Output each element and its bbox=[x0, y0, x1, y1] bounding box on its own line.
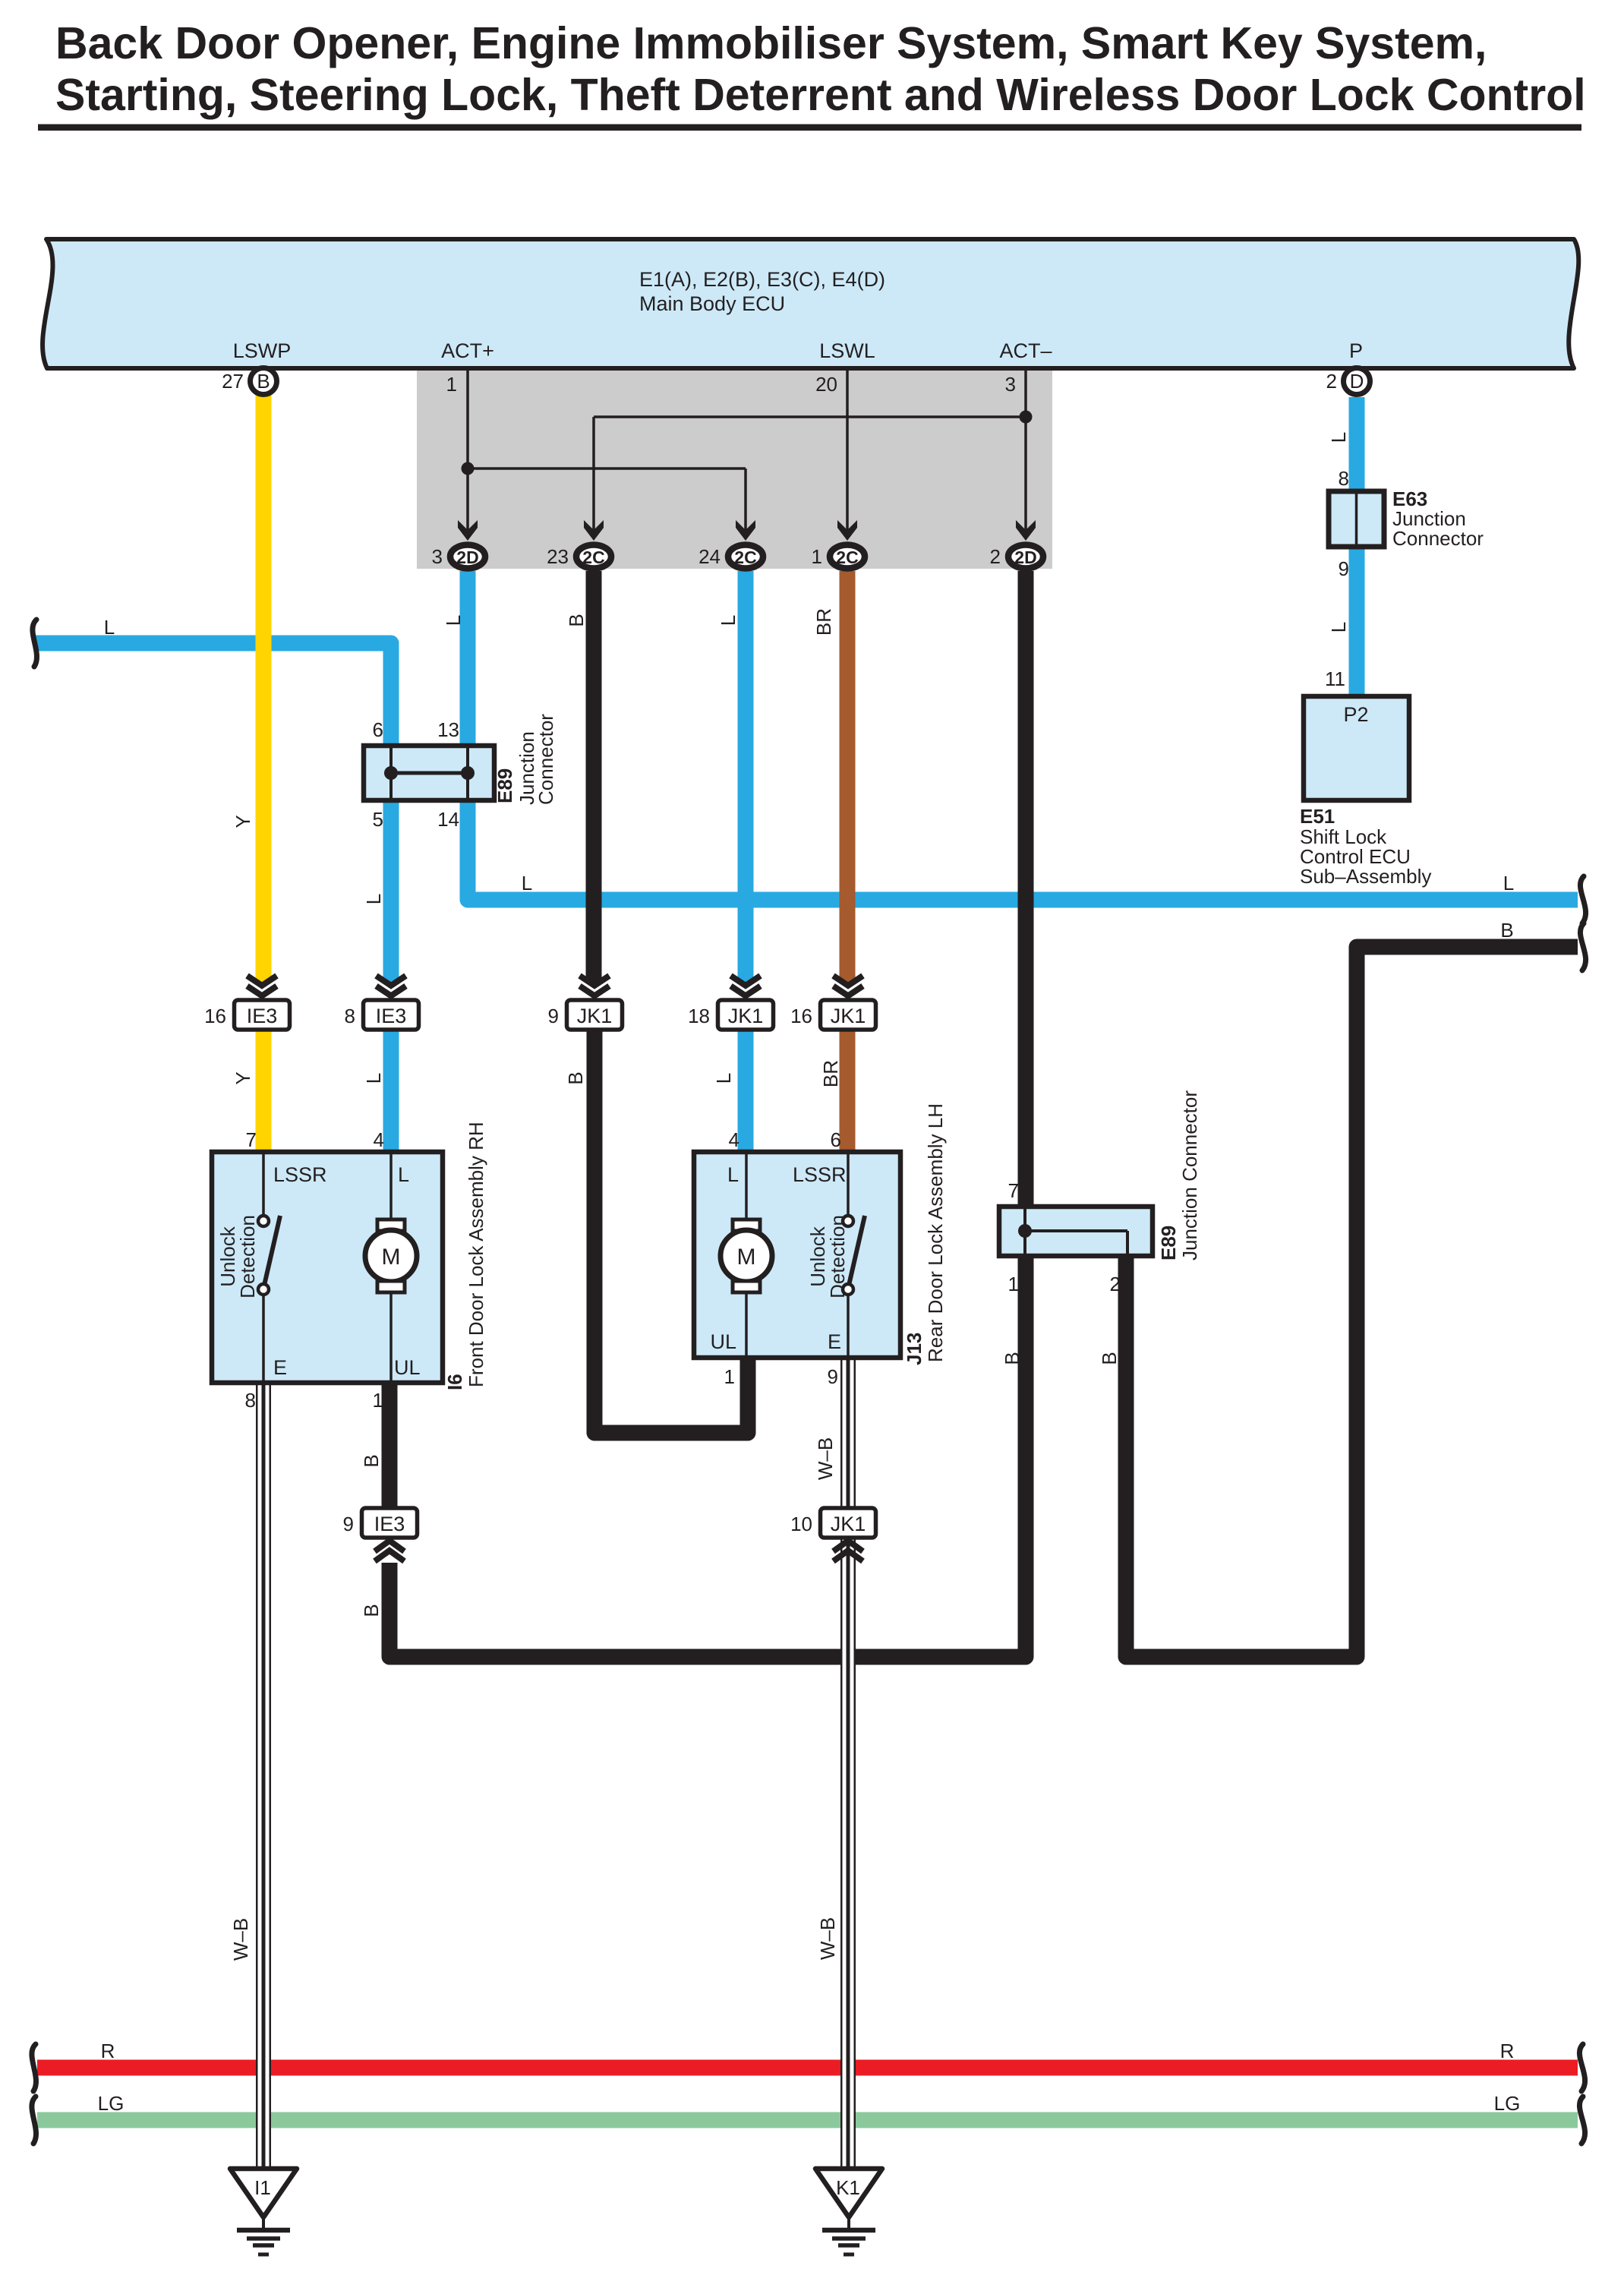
svg-text:16: 16 bbox=[790, 1005, 812, 1027]
svg-text:9: 9 bbox=[343, 1513, 354, 1535]
svg-text:BR: BR bbox=[819, 1060, 842, 1087]
svg-text:W–B: W–B bbox=[816, 1917, 839, 1960]
svg-text:B: B bbox=[360, 1454, 383, 1467]
svg-text:B: B bbox=[360, 1604, 383, 1617]
svg-text:Back Door Opener, Engine Immob: Back Door Opener, Engine Immobiliser Sys… bbox=[55, 18, 1487, 68]
svg-text:R: R bbox=[101, 2040, 115, 2062]
svg-text:Y: Y bbox=[232, 815, 254, 828]
svg-text:P: P bbox=[1349, 339, 1363, 362]
svg-text:IE3: IE3 bbox=[376, 1005, 407, 1027]
svg-text:Starting, Steering Lock, Theft: Starting, Steering Lock, Theft Deterrent… bbox=[55, 70, 1586, 120]
svg-text:20: 20 bbox=[815, 373, 837, 396]
svg-text:I6: I6 bbox=[443, 1374, 466, 1390]
svg-text:B: B bbox=[1500, 919, 1513, 942]
svg-text:Detection: Detection bbox=[826, 1215, 849, 1298]
svg-text:P2: P2 bbox=[1343, 703, 1368, 726]
svg-text:E: E bbox=[828, 1330, 841, 1353]
svg-text:Connector: Connector bbox=[535, 714, 557, 805]
svg-text:K1: K1 bbox=[836, 2176, 860, 2199]
svg-text:LSWL: LSWL bbox=[819, 339, 875, 362]
svg-text:1: 1 bbox=[1008, 1273, 1019, 1295]
svg-text:IE3: IE3 bbox=[374, 1513, 405, 1535]
svg-text:9: 9 bbox=[548, 1005, 559, 1027]
svg-text:3: 3 bbox=[432, 545, 443, 568]
svg-text:JK1: JK1 bbox=[728, 1005, 764, 1027]
svg-text:LG: LG bbox=[1494, 2092, 1521, 2115]
svg-text:IE3: IE3 bbox=[247, 1005, 278, 1027]
svg-text:4: 4 bbox=[729, 1128, 739, 1151]
svg-text:E1(A), E2(B), E3(C), E4(D): E1(A), E2(B), E3(C), E4(D) bbox=[639, 268, 885, 291]
svg-text:8: 8 bbox=[345, 1005, 355, 1027]
svg-text:Detection: Detection bbox=[236, 1215, 259, 1298]
svg-text:JK1: JK1 bbox=[577, 1005, 613, 1027]
svg-text:1: 1 bbox=[724, 1365, 735, 1388]
svg-text:BR: BR bbox=[812, 608, 835, 636]
svg-text:L: L bbox=[1327, 432, 1350, 443]
svg-text:LG: LG bbox=[98, 2092, 125, 2115]
svg-text:JK1: JK1 bbox=[831, 1005, 866, 1027]
svg-text:Connector: Connector bbox=[1392, 527, 1484, 550]
svg-text:16: 16 bbox=[204, 1005, 226, 1027]
svg-text:W–B: W–B bbox=[814, 1437, 837, 1480]
svg-text:4: 4 bbox=[374, 1128, 384, 1151]
svg-text:8: 8 bbox=[245, 1389, 256, 1412]
svg-text:L: L bbox=[1327, 622, 1350, 633]
svg-text:9: 9 bbox=[828, 1365, 838, 1388]
svg-text:2D: 2D bbox=[456, 547, 478, 567]
svg-text:2: 2 bbox=[1110, 1273, 1121, 1295]
svg-text:E89: E89 bbox=[494, 768, 516, 803]
svg-text:Main Body ECU: Main Body ECU bbox=[639, 292, 785, 315]
svg-text:Sub–Assembly: Sub–Assembly bbox=[1300, 865, 1431, 888]
svg-text:6: 6 bbox=[373, 718, 383, 741]
svg-text:1: 1 bbox=[373, 1389, 383, 1412]
svg-text:LSWP: LSWP bbox=[233, 339, 292, 362]
svg-text:L: L bbox=[398, 1163, 409, 1186]
svg-text:ACT–: ACT– bbox=[999, 339, 1052, 362]
svg-text:M: M bbox=[382, 1245, 401, 1270]
svg-text:B: B bbox=[1001, 1352, 1023, 1365]
svg-text:Rear Door Lock Assembly LH: Rear Door Lock Assembly LH bbox=[924, 1103, 947, 1362]
svg-text:8: 8 bbox=[1339, 467, 1349, 490]
svg-text:11: 11 bbox=[1325, 667, 1345, 690]
svg-text:14: 14 bbox=[437, 808, 459, 831]
svg-text:5: 5 bbox=[373, 808, 383, 831]
svg-text:E: E bbox=[273, 1356, 287, 1379]
svg-text:10: 10 bbox=[790, 1513, 812, 1535]
svg-text:E51: E51 bbox=[1300, 805, 1335, 828]
svg-text:23: 23 bbox=[547, 545, 569, 568]
svg-text:2C: 2C bbox=[836, 547, 858, 567]
svg-text:UL: UL bbox=[394, 1356, 421, 1379]
svg-text:Front Door Lock Assembly RH: Front Door Lock Assembly RH bbox=[465, 1122, 487, 1387]
svg-text:1: 1 bbox=[446, 373, 457, 396]
svg-text:D: D bbox=[1350, 370, 1364, 393]
svg-text:M: M bbox=[737, 1245, 756, 1270]
svg-text:W–B: W–B bbox=[229, 1918, 252, 1961]
svg-text:2C: 2C bbox=[582, 547, 604, 567]
svg-text:L: L bbox=[727, 1163, 739, 1186]
svg-text:18: 18 bbox=[688, 1005, 710, 1027]
svg-text:UL: UL bbox=[710, 1330, 736, 1353]
svg-text:2: 2 bbox=[990, 545, 1001, 568]
svg-text:2: 2 bbox=[1326, 370, 1337, 393]
svg-text:I1: I1 bbox=[254, 2176, 271, 2199]
svg-text:L: L bbox=[712, 1073, 735, 1084]
svg-text:3: 3 bbox=[1005, 373, 1016, 396]
svg-text:B: B bbox=[565, 614, 588, 626]
svg-text:ACT+: ACT+ bbox=[441, 339, 494, 362]
svg-text:L: L bbox=[362, 894, 385, 904]
svg-text:1: 1 bbox=[812, 545, 822, 568]
svg-text:9: 9 bbox=[1339, 557, 1349, 580]
svg-text:L: L bbox=[1503, 872, 1514, 894]
svg-text:R: R bbox=[1500, 2040, 1515, 2062]
svg-text:LSSR: LSSR bbox=[793, 1163, 847, 1186]
svg-text:6: 6 bbox=[831, 1128, 841, 1151]
svg-text:B: B bbox=[564, 1071, 587, 1084]
svg-text:L: L bbox=[522, 872, 532, 894]
svg-text:B: B bbox=[257, 370, 270, 393]
svg-text:B: B bbox=[1098, 1352, 1121, 1365]
svg-text:L: L bbox=[362, 1073, 385, 1084]
svg-text:27: 27 bbox=[222, 370, 244, 393]
svg-text:E89: E89 bbox=[1157, 1226, 1180, 1260]
svg-text:Junction Connector: Junction Connector bbox=[1178, 1090, 1201, 1260]
svg-text:L: L bbox=[442, 615, 465, 626]
svg-text:13: 13 bbox=[437, 718, 459, 741]
svg-text:L: L bbox=[717, 615, 739, 626]
svg-text:24: 24 bbox=[698, 545, 721, 568]
svg-text:Y: Y bbox=[232, 1071, 254, 1084]
svg-text:JK1: JK1 bbox=[831, 1513, 866, 1535]
svg-text:LSSR: LSSR bbox=[273, 1163, 327, 1186]
svg-text:2C: 2C bbox=[734, 547, 756, 567]
svg-text:2D: 2D bbox=[1014, 547, 1036, 567]
svg-text:J13: J13 bbox=[903, 1333, 926, 1365]
svg-text:7: 7 bbox=[1008, 1179, 1019, 1202]
svg-text:7: 7 bbox=[246, 1128, 257, 1151]
svg-text:L: L bbox=[104, 616, 115, 639]
